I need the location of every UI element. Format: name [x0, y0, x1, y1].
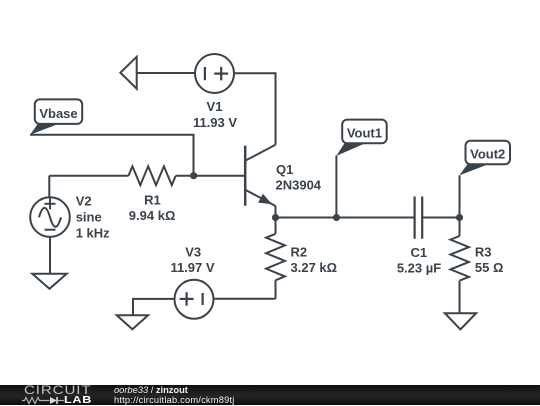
- wire V3 to ground: [133, 299, 175, 315]
- resistor R3: [451, 218, 469, 314]
- svg-text:V2: V2: [76, 194, 92, 209]
- svg-text:V3: V3: [185, 244, 201, 259]
- svg-text:R1: R1: [144, 192, 161, 207]
- ground (below V2): [32, 274, 66, 289]
- flag Vout1: [336, 120, 386, 156]
- wire base row right: [176, 175, 245, 177]
- voltage source V3: [175, 280, 214, 319]
- wire R2 to V3: [214, 298, 276, 300]
- transistor Q1: [245, 145, 275, 218]
- svg-text:R2: R2: [291, 245, 308, 260]
- wire base row left: [49, 175, 128, 177]
- wire emitter row: [276, 217, 415, 219]
- svg-text:Vout1: Vout1: [347, 126, 382, 141]
- svg-text:3.27 kΩ: 3.27 kΩ: [291, 260, 338, 275]
- node (base junction): [190, 172, 197, 179]
- capacitor C1: [415, 197, 423, 239]
- resistor R1: [129, 166, 176, 185]
- ground (below V3 minus): [117, 315, 148, 329]
- wire ground to V1: [137, 72, 195, 74]
- flag Vout2: [459, 141, 510, 176]
- wire V2 to ground: [49, 237, 51, 274]
- wire Vbase flag: [30, 135, 194, 176]
- svg-text:1 kHz: 1 kHz: [76, 225, 110, 240]
- logo LAB text: [64, 395, 92, 405]
- node (Vout2 junction): [456, 214, 463, 221]
- svg-text:9.94 kΩ: 9.94 kΩ: [129, 208, 176, 223]
- logo CIRCUIT text: [24, 385, 91, 396]
- svg-text:5.23 µF: 5.23 µF: [397, 260, 441, 275]
- svg-text:V1: V1: [207, 99, 223, 114]
- voltage source V2: [30, 176, 70, 237]
- svg-text:11.93 V: 11.93 V: [193, 115, 237, 130]
- flag Vbase: [30, 99, 82, 134]
- svg-text:2N3904: 2N3904: [276, 178, 322, 193]
- resistor R2: [266, 218, 285, 299]
- svg-text:11.97 V: 11.97 V: [170, 260, 214, 275]
- wire C1 to node: [422, 217, 459, 219]
- footer bar: [0, 385, 540, 406]
- svg-text:sine: sine: [76, 210, 102, 225]
- svg-text:55 Ω: 55 Ω: [475, 260, 504, 275]
- svg-text:Vout2: Vout2: [470, 147, 505, 162]
- svg-text:Q1: Q1: [276, 162, 293, 177]
- footer url line: [114, 395, 235, 405]
- wire Vout2 drop: [459, 175, 461, 217]
- node (emitter junction): [272, 214, 279, 221]
- wire Vout1 drop: [335, 156, 337, 218]
- svg-text:Vbase: Vbase: [39, 106, 77, 121]
- svg-text:R3: R3: [475, 244, 492, 259]
- logo resistor+diode symbol: [22, 396, 66, 405]
- wire V1 to collector: [234, 73, 276, 145]
- ground (below R3): [445, 313, 476, 329]
- ground (left of V1, pointing left): [120, 57, 136, 89]
- node (Vout1 junction): [333, 214, 340, 221]
- svg-text:C1: C1: [410, 245, 427, 260]
- voltage source V1: [195, 54, 234, 93]
- footer user/project line: [114, 385, 188, 395]
